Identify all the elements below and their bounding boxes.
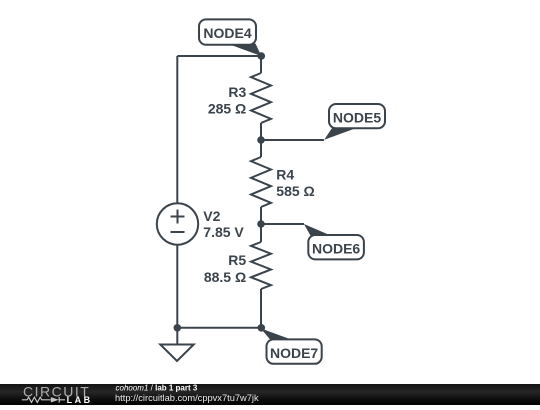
node label NODE4 pointer <box>227 44 261 57</box>
wire below R5 <box>260 289 262 328</box>
logo resistor-diode glyph <box>22 397 65 403</box>
wire left vertical lower <box>176 245 178 328</box>
resistor R5 <box>251 242 271 289</box>
svg-text:NODE6: NODE6 <box>312 241 360 257</box>
node label NODE7 callout <box>267 339 322 363</box>
node label NODE4 callout <box>199 19 256 44</box>
svg-text:7.85 V: 7.85 V <box>203 224 244 240</box>
wire left vertical upper <box>176 56 178 203</box>
svg-text:NODE7: NODE7 <box>270 345 318 361</box>
junction node NODE7 <box>258 324 266 332</box>
svg-text:cohoom1 / lab 1 part 3: cohoom1 / lab 1 part 3 <box>116 383 198 392</box>
wire between R3 and R4 <box>260 123 262 157</box>
svg-text:NODE5: NODE5 <box>333 110 381 126</box>
node label NODE5 pointer <box>324 129 355 140</box>
node label NODE7 pointer <box>261 328 293 340</box>
svg-text:285 Ω: 285 Ω <box>208 101 246 117</box>
wire NODE5 stub <box>261 139 324 141</box>
wire chain above R3 <box>260 56 262 73</box>
svg-text:R5: R5 <box>228 252 246 268</box>
wire bottom horizontal <box>177 327 261 329</box>
svg-text:LAB: LAB <box>67 395 93 405</box>
resistor R3 <box>251 73 271 123</box>
node label NODE5 callout <box>329 104 385 128</box>
ground <box>160 328 193 361</box>
junction node NODE6 <box>257 220 265 228</box>
node label NODE6 pointer <box>304 224 331 236</box>
junction node NODE4 <box>258 52 266 60</box>
svg-text:NODE4: NODE4 <box>203 25 251 41</box>
junction node ground <box>174 324 182 332</box>
svg-text:R4: R4 <box>276 167 294 183</box>
svg-text:88.5 Ω: 88.5 Ω <box>204 269 246 285</box>
svg-text:R3: R3 <box>228 84 246 100</box>
voltage source V2 <box>157 203 198 244</box>
wire between R4 and R5 <box>260 207 262 242</box>
wire top horizontal <box>177 55 261 57</box>
svg-text:V2: V2 <box>203 208 220 224</box>
wire NODE6 stub <box>261 223 304 225</box>
svg-text:585 Ω: 585 Ω <box>276 183 314 199</box>
svg-text:http://circuitlab.com/cppvx7tu: http://circuitlab.com/cppvx7tu7w7jk <box>115 393 259 403</box>
node label NODE6 callout <box>308 235 364 259</box>
junction node NODE5 <box>257 136 265 144</box>
resistor R4 <box>251 157 271 207</box>
